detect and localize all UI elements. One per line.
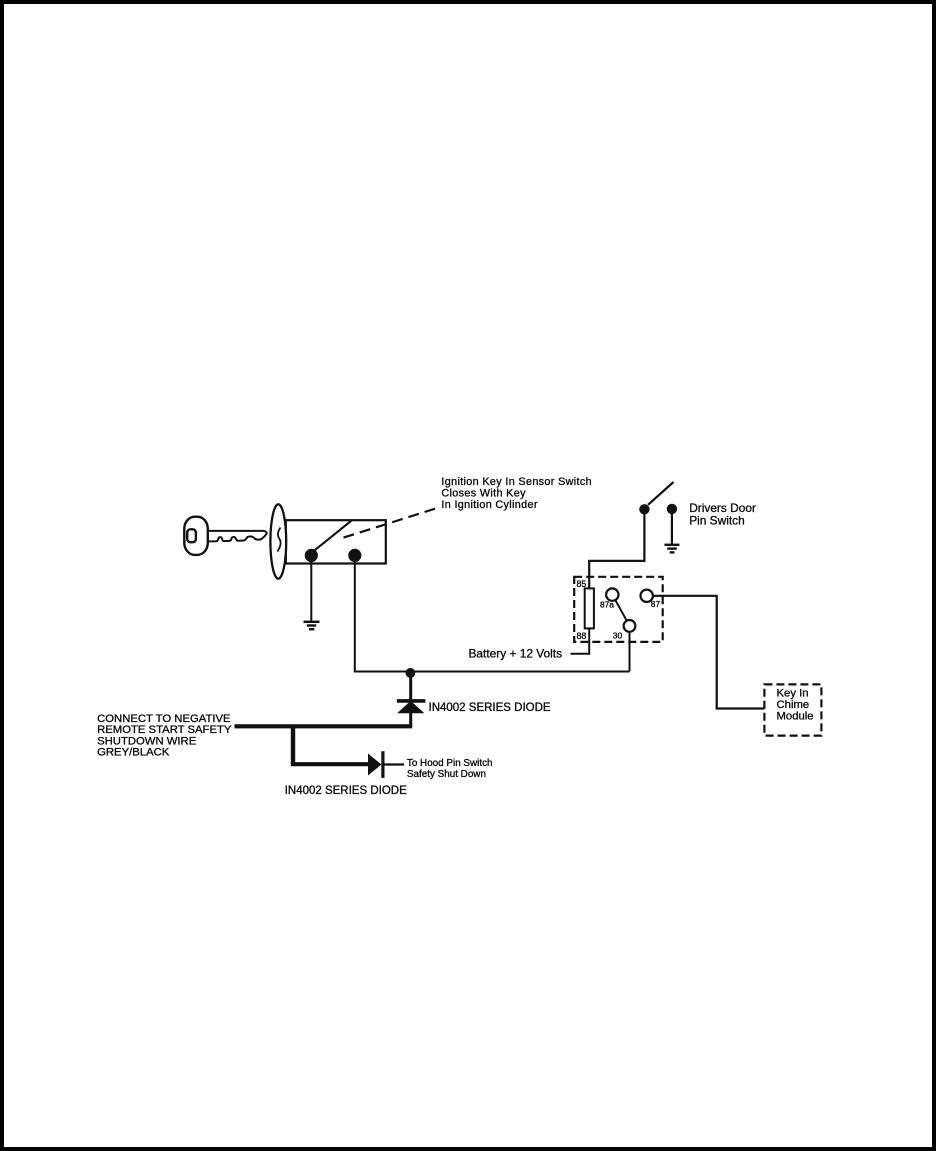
relay box (dashed) xyxy=(574,577,663,642)
wire: coil bottom to battery stub xyxy=(571,628,590,653)
svg-text:Pin Switch: Pin Switch xyxy=(689,514,745,528)
svg-text:GREY/BLACK: GREY/BLACK xyxy=(97,747,170,759)
drivers door pin switch contact (filled, right) xyxy=(667,504,677,514)
svg-text:88: 88 xyxy=(577,631,587,641)
relay contact 30 xyxy=(624,620,636,632)
ignition switch box xyxy=(286,520,386,563)
wire: pin 87 right, down, to chime module xyxy=(653,596,765,709)
svg-text:IN4002 SERIES DIODE: IN4002 SERIES DIODE xyxy=(285,785,407,797)
key (ignition key icon) xyxy=(184,517,266,555)
diode D1 triangle xyxy=(398,702,423,713)
switch arm inside ignition box xyxy=(314,521,352,551)
drivers door pin switch contact (filled, left) xyxy=(639,504,649,514)
svg-text:Ignition Key In Sensor Switch: Ignition Key In Sensor Switch xyxy=(441,476,592,488)
svg-text:Key In: Key In xyxy=(777,687,809,699)
key head xyxy=(184,517,208,555)
thick wire: branch right to diode D2 xyxy=(291,762,369,766)
svg-text:Safety Shut Down: Safety Shut Down xyxy=(407,769,486,780)
diode D1 lead down xyxy=(409,712,412,726)
wire: right contact to ground xyxy=(671,513,673,545)
svg-text:CONNECT TO NEGATIVE: CONNECT TO NEGATIVE xyxy=(97,713,231,725)
relay contact 87 xyxy=(641,590,653,602)
thick wire: connect-to-negative horizontal xyxy=(235,724,413,728)
svg-text:To Hood Pin Switch: To Hood Pin Switch xyxy=(407,758,493,769)
ground (door switch) xyxy=(664,545,679,553)
ignition switch contact 1 (filled) xyxy=(305,549,318,562)
wire: left contact down, left, to relay coil top xyxy=(589,514,644,589)
svg-text:Battery + 12 Volts: Battery + 12 Volts xyxy=(469,647,563,661)
diode D2 lead right xyxy=(384,763,404,765)
wire: contact1 to ground xyxy=(310,558,312,622)
wire: long horizontal to relay pin 30 xyxy=(354,671,630,673)
key shaft with teeth xyxy=(208,531,267,542)
diode D2 triangle xyxy=(369,755,381,775)
svg-text:85: 85 xyxy=(577,579,587,589)
svg-text:Closes With Key: Closes With Key xyxy=(441,487,526,499)
key hole xyxy=(187,529,196,542)
svg-text:Module: Module xyxy=(777,710,814,722)
svg-text:Chime: Chime xyxy=(777,699,810,711)
Key In Chime Module box (dashed) xyxy=(764,684,821,735)
svg-text:30: 30 xyxy=(613,630,623,640)
junction node xyxy=(406,668,416,678)
diode D1 cathode bar xyxy=(397,699,426,703)
svg-text:SHUTDOWN WIRE: SHUTDOWN WIRE xyxy=(97,736,197,748)
ignition cylinder face (ellipse) xyxy=(270,504,286,578)
diode D1 branch: vertical from junction xyxy=(409,672,412,700)
ignition switch contact 2 (filled) xyxy=(348,549,361,562)
relay switch arm 87a-30 xyxy=(615,600,627,621)
wire: contact2 down xyxy=(354,558,356,672)
ground (ignition switch) xyxy=(304,622,320,629)
relay coil xyxy=(585,588,594,628)
door switch arm xyxy=(648,482,674,505)
svg-text:REMOTE START SAFETY: REMOTE START SAFETY xyxy=(97,724,232,736)
svg-text:87a: 87a xyxy=(600,600,614,610)
svg-text:IN4002 SERIES DIODE: IN4002 SERIES DIODE xyxy=(429,702,551,714)
squiggle inside cylinder xyxy=(278,528,281,552)
thick wire: branch down xyxy=(291,726,295,764)
diode D2 cathode bar xyxy=(381,751,384,778)
dashed callout line to annotation xyxy=(344,508,439,538)
svg-text:87: 87 xyxy=(651,599,661,609)
svg-text:In Ignition Cylinder: In Ignition Cylinder xyxy=(441,499,537,511)
wire: pin 30 down to main horizontal xyxy=(629,632,631,672)
relay contact 87a xyxy=(606,588,618,600)
